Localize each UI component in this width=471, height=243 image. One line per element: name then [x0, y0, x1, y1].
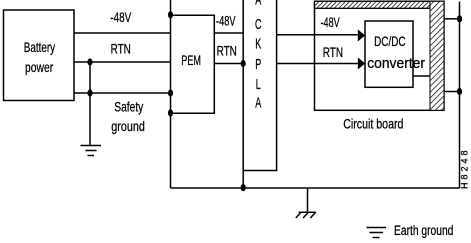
wire RTN backplane to circuit board	[277, 63, 358, 65]
wire earth riser vertical	[459, 2, 461, 189]
svg-text:RTN: RTN	[323, 44, 343, 60]
svg-text:A: A	[255, 94, 262, 111]
node junction dot earth riser mid	[457, 88, 462, 95]
PEM box	[171, 15, 215, 113]
svg-text:C: C	[255, 15, 262, 32]
DC/DC converter box	[365, 21, 413, 87]
node junction dot at PEM top-left	[168, 11, 173, 18]
svg-text:A: A	[255, 0, 262, 8]
hatched top strip of circuit board	[315, 1, 431, 8]
svg-text:RTN: RTN	[217, 43, 237, 59]
battery power box	[4, 10, 75, 101]
wire vertical drop to safety ground symbol	[89, 62, 91, 146]
svg-text:DC/DC: DC/DC	[374, 33, 406, 49]
wire chassis ground stub	[307, 188, 309, 212]
node junction dot RTN / safety drop	[87, 58, 92, 65]
svg-text:K: K	[255, 35, 262, 52]
node junction dot earth riser top	[457, 15, 462, 22]
wire RTN PEM to backplane	[214, 63, 243, 65]
ground (chassis ground symbol)	[296, 212, 316, 218]
node junction dot safety wire / PEM bus	[168, 89, 173, 96]
arrow into DC/DC (RTN)	[358, 58, 365, 70]
wire -48V PEM to backplane	[214, 32, 243, 34]
svg-text:PEM: PEM	[181, 52, 201, 69]
ground (earth ground legend symbol)	[367, 228, 387, 238]
circuit board box	[315, 1, 445, 110]
svg-text:Earth ground: Earth ground	[394, 222, 454, 238]
svg-text:RTN: RTN	[111, 41, 131, 57]
svg-text:converter: converter	[367, 55, 425, 72]
backplane box	[243, 0, 276, 171]
node junction dot safety wire / drop	[87, 89, 92, 96]
wire PEM left vertical bus	[170, 0, 172, 188]
svg-text:-48V: -48V	[110, 10, 132, 26]
arrow into DC/DC (-48V)	[358, 30, 365, 42]
node junction dot RTN at backplane	[241, 60, 246, 67]
wire ground bus horizontal	[171, 187, 460, 189]
wire board to earth riser (bottom)	[444, 91, 460, 93]
svg-text:-48V: -48V	[321, 14, 340, 31]
svg-text:power: power	[25, 59, 53, 75]
node junction dot backplane stub at bus	[241, 184, 246, 191]
ground (safety, signal-ground symbol)	[81, 146, 102, 156]
wire DC/DC output to board edge	[413, 75, 430, 77]
wire backplane stub to ground bus	[242, 171, 244, 189]
svg-text:-48V: -48V	[216, 12, 236, 29]
node junction dot PEM bottom-left	[168, 109, 173, 116]
wire board to earth riser (top)	[444, 18, 460, 20]
hatched right strip of circuit board	[430, 1, 444, 110]
svg-text:P: P	[255, 55, 261, 72]
svg-text:Safety: Safety	[114, 99, 144, 115]
svg-text:H8248: H8248	[460, 147, 470, 189]
wire -48V battery to PEM	[74, 32, 171, 34]
svg-text:Battery: Battery	[24, 40, 56, 56]
svg-text:ground: ground	[111, 119, 145, 135]
wire -48V backplane to circuit board	[277, 34, 358, 36]
wire RTN battery to PEM	[74, 61, 171, 63]
label BACKPLANE vertical letters	[255, 0, 262, 111]
svg-text:Circuit board: Circuit board	[343, 116, 403, 132]
wire safety ground battery to PEM	[74, 92, 171, 94]
svg-text:L: L	[256, 75, 261, 92]
